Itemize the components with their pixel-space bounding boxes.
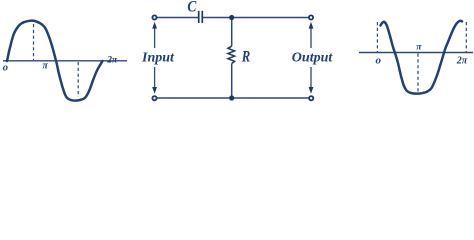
- output terminal top (open circle): [309, 15, 313, 19]
- svg-text:o: o: [376, 55, 382, 67]
- svg-text:Input: Input: [141, 50, 175, 65]
- capacitor C, left plate: [198, 11, 200, 23]
- output origin dashed line: [376, 22, 378, 52]
- input waveform horizontal axis: [3, 60, 127, 62]
- input sine curve: [7, 21, 103, 101]
- output end dashed line: [465, 22, 467, 52]
- input peak dashed line: [33, 24, 35, 60]
- node B junction dot (bottom): [229, 95, 234, 100]
- output cosine curve: [381, 21, 463, 94]
- svg-text:R: R: [241, 48, 251, 65]
- svg-text:2π: 2π: [106, 56, 118, 66]
- wire: bottom rail, input terminal to output terminal through node B: [157, 97, 308, 99]
- input port arrow, lower (points to bottom terminal): [152, 67, 157, 94]
- input terminal top (open circle): [152, 15, 156, 19]
- output trough dashed line: [417, 54, 419, 92]
- node A junction dot (top): [229, 15, 234, 20]
- resistor R (zigzag body): [228, 46, 235, 63]
- wire: top, capacitor to output terminal through node A: [203, 17, 309, 19]
- svg-text:Output: Output: [292, 50, 334, 65]
- svg-text:C: C: [187, 0, 196, 16]
- output terminal bottom (open circle): [309, 96, 313, 100]
- svg-text:π: π: [416, 43, 422, 53]
- input trough dashed line: [77, 62, 79, 97]
- svg-text:2π: 2π: [456, 55, 468, 66]
- svg-text:π: π: [42, 61, 48, 72]
- input terminal bottom (open circle): [152, 96, 156, 100]
- input port arrow, upper (points to top terminal): [152, 22, 157, 48]
- svg-text:o: o: [3, 62, 8, 73]
- wire: resistor top lead from node A: [231, 18, 233, 47]
- wire: top, input terminal to capacitor: [157, 17, 198, 19]
- capacitor C, right plate: [201, 11, 203, 23]
- output waveform horizontal axis: [359, 52, 473, 54]
- output port arrow, lower (points to bottom terminal): [309, 67, 314, 94]
- wire: resistor bottom lead to node B: [231, 64, 233, 99]
- output port arrow, upper (points to top terminal): [309, 22, 314, 48]
